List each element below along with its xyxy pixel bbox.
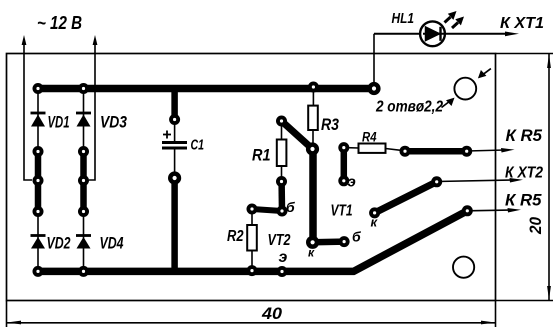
pad: R1 top [276,116,287,127]
wire: diagonal R1 top to R3 bottom [282,121,313,149]
svg-text:б: б [352,229,361,245]
svg-text:VD4: VD4 [100,235,124,253]
LED light arrows [445,11,465,28]
pad: VT1 emitter [338,175,349,186]
wire: R1 bottom bar to VT2 base pad [278,181,285,211]
wire: R4 right bar [405,148,467,155]
pin label b (VT2 base) [286,199,295,215]
pad: C1 minus [168,171,181,184]
svg-text:~ 12 В: ~ 12 В [37,13,82,33]
diode VD2 [31,212,71,272]
svg-text:К R5: К R5 [506,127,543,145]
pad: column B node 3 [78,206,89,217]
svg-text:С1: С1 [191,138,205,154]
wire: top bus trace [38,85,374,92]
pad: K R5 upper [461,146,472,157]
pad: top bus left (VD1 cathode) [33,83,44,94]
diode VD3 [76,89,127,152]
wire: C1 bottom trace [171,178,178,272]
pad: R1 bottom [276,176,287,187]
svg-text:К ХТ2: К ХТ2 [505,165,543,182]
pin label k (VT1 collector) [371,215,379,230]
hole bottom-right [453,257,474,278]
pad: C1 plus [169,114,180,125]
svg-text:R2: R2 [227,228,244,245]
svg-text:2 отвø2,2: 2 отвø2,2 [375,99,443,116]
svg-text:40: 40 [261,304,283,323]
pin label e (VT2 emitter) [279,249,288,266]
dimension 20 (right) [496,54,554,301]
LED HL1 [374,10,445,89]
pad: R3 bottom junction [306,142,319,155]
pad: top bus VD3 cathode [78,83,89,94]
wire: diode column B upper bar [80,152,87,181]
pad: top bus R3 [308,82,319,93]
pin label b (VT1 base) [352,229,361,245]
wire: C1 top stub [171,87,178,120]
pin label k (VT2 collector) [308,246,315,260]
wire: diode column A lower bar [35,181,42,212]
transistor VT1 label [331,203,353,220]
capacitor C1 [162,120,204,179]
pad: VT1 base [339,236,350,247]
pad: R4 right [400,146,411,157]
pad: K XT2 [431,176,442,187]
resistor R4 [344,130,405,153]
svg-text:VT2: VT2 [268,232,291,249]
svg-text:К ХТ1: К ХТ1 [500,15,544,32]
pad: R2 top [247,204,258,215]
svg-text:к: к [308,246,315,260]
pad: column B node 2 (AC in) [78,175,89,186]
pad: VT1 collector [369,207,380,218]
wire: K XT2 arrow [437,165,543,183]
wire: K XT1 arrow [445,15,545,36]
svg-text:HL1: HL1 [392,10,415,27]
wire: K R5 lower arrow [467,192,542,213]
svg-text:б: б [286,199,295,215]
pad: bottom bus VD4 [78,266,89,277]
pad: VT2 base [277,206,288,217]
wire: diode column A upper bar [35,152,42,181]
pad: top bus right end [367,82,380,95]
wire: VT2 collector to VT1 base bar [313,238,345,245]
hole top-right [454,78,476,100]
wire: diode column B lower bar [80,181,87,212]
wire: middle column trace R3-VT2k [309,149,317,242]
wire: R2 top bar [252,209,282,211]
board outline [7,54,496,301]
pad: column A node 2 (AC in) [33,175,44,186]
diode VD4 [76,212,124,272]
wire: AC input right [89,35,97,180]
pad: column A node 1 [33,146,44,157]
svg-text:R4: R4 [362,130,377,145]
svg-text:VT1: VT1 [331,203,353,220]
wire: AC input left [22,35,32,180]
pad: R4 left [338,142,349,153]
wire: bottom bus trace with diagonal to K R5 [38,211,467,272]
resistor R1 [252,121,286,182]
pad: K R5 lower [462,205,473,216]
svg-text:э: э [348,174,356,191]
pin label e (VT1 emitter) [348,174,356,191]
pad: R2 bottom [247,265,258,276]
label 2 holes dia 2.2 with leader arrows [375,69,491,116]
svg-text:R3: R3 [321,116,339,134]
pad: column A node 3 [33,206,44,217]
wire: VT1 emitter bar [341,148,348,181]
svg-text:К R5: К R5 [505,192,542,210]
diode VD1 [31,89,70,152]
resistor R2 [227,209,257,271]
pad: VT2 collector [306,236,319,249]
svg-text:R1: R1 [252,147,271,165]
svg-text:VD3: VD3 [100,114,127,132]
transistor VT2 label [268,232,291,249]
pad: column B node 1 [78,146,89,157]
svg-text:э: э [279,249,288,266]
dimension 40 (bottom) [7,301,496,328]
wire: K R5 upper arrow [467,127,543,153]
pad: VT2 emitter [277,266,288,277]
label ~12V input [37,13,82,33]
svg-text:VD2: VD2 [47,235,71,253]
resistor R3 [308,87,339,149]
pad: bottom bus VD2 [33,266,44,277]
svg-text:VD1: VD1 [48,114,70,132]
wire: VT1 collector diagonal to XT2 pad [375,182,437,213]
svg-text:20: 20 [526,217,545,235]
